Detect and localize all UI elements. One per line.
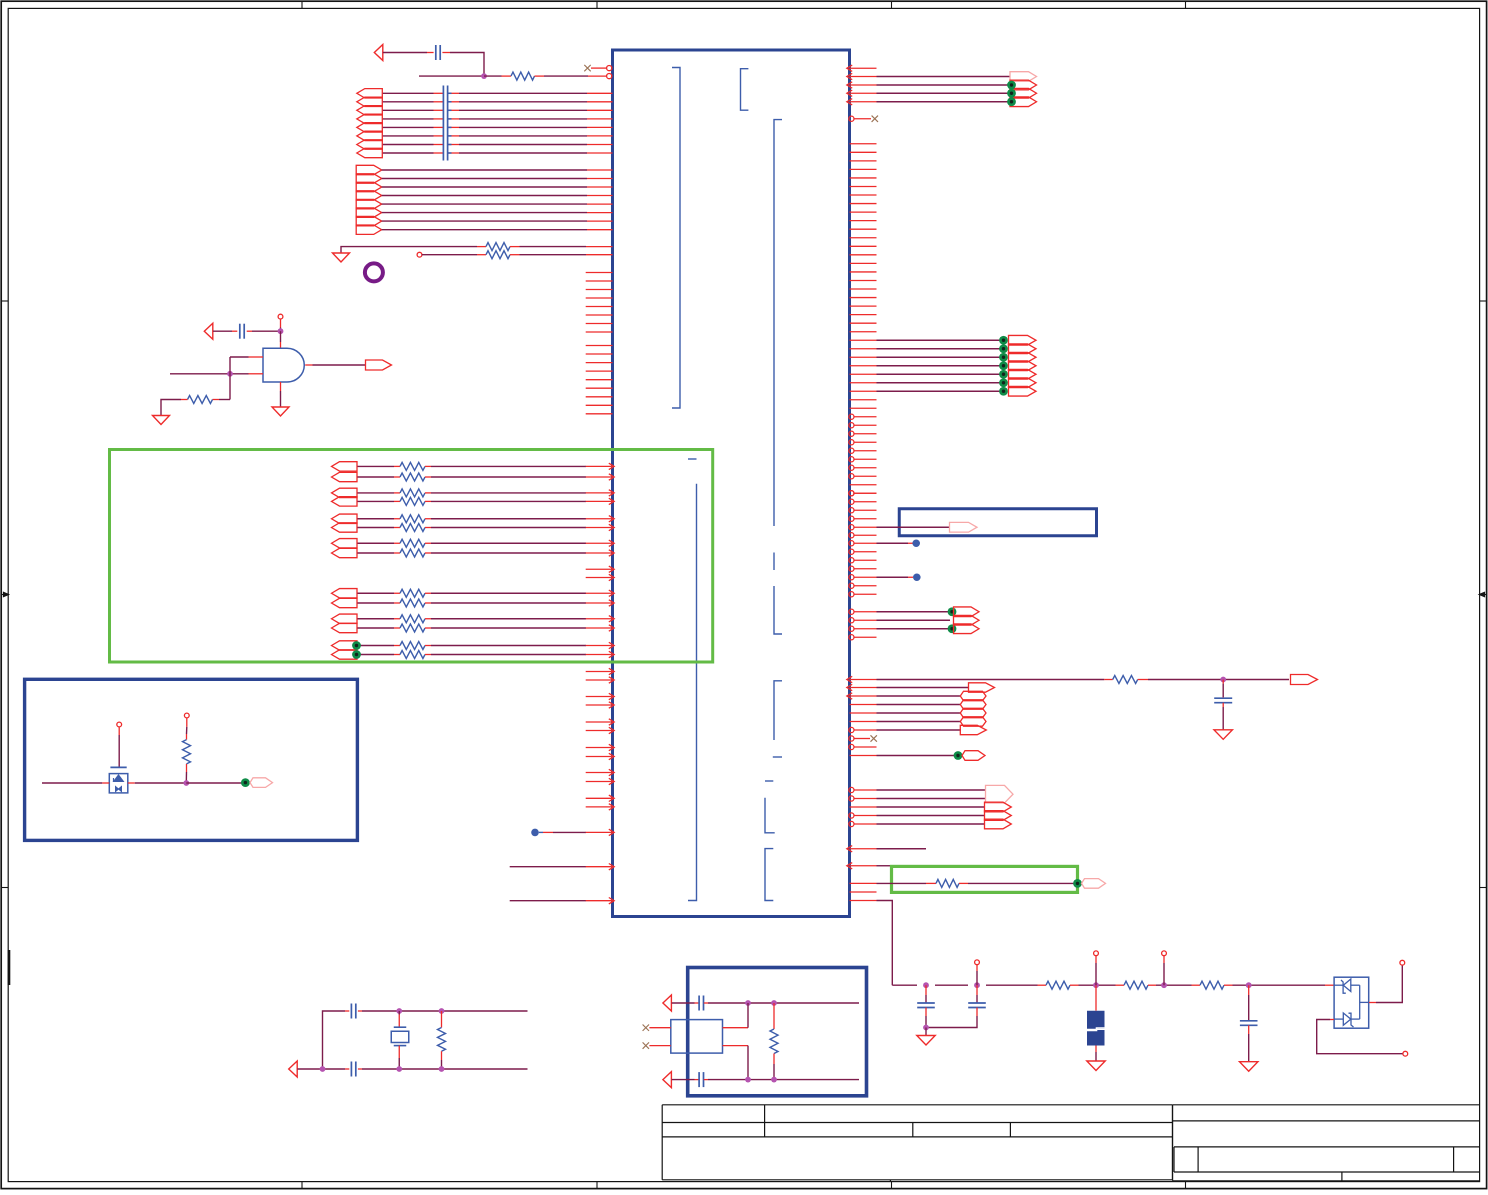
left edge center arrow (1, 592, 9, 597)
highlight blue box 1 (25, 679, 358, 840)
wire xtal top rail (323, 1011, 346, 1069)
resistor pair R15,R16 with wires (358, 615, 587, 632)
wire D1 bottom to circle (1317, 1020, 1408, 1057)
power arrow box3 bottom (663, 1072, 672, 1088)
junction node B (278, 328, 284, 334)
IC U1 internal bracket 4 (688, 459, 697, 901)
gate bottom pin to ground (280, 382, 282, 407)
IC right pin y535 (849, 533, 877, 538)
IC left pin group C (12 arrow pins) (586, 668, 615, 810)
IC right pin y747 (849, 744, 877, 749)
wire IC long run y679 (847, 676, 1105, 682)
wire gnd-line to resistor R2 (341, 247, 477, 253)
wire stub left at node (419, 75, 484, 77)
wire R20 to port (1148, 679, 1289, 681)
highlight blue box 2 (899, 509, 1096, 536)
wire to blue ball 2 (849, 575, 913, 580)
wire to bullet y755 (850, 755, 956, 757)
wire IC to port in box2 (849, 525, 949, 530)
capacitor C12 (926, 985, 986, 1027)
resistor R22 (1038, 981, 1079, 989)
IC right pins y585-594 (849, 583, 877, 597)
highlight green box 1 (110, 450, 713, 663)
capacitor C2 (232, 324, 252, 339)
wire node C vertical (229, 357, 231, 400)
wire D1 out to circle (1369, 960, 1405, 1002)
capacitor C1 (427, 45, 450, 60)
IC pins for pair 6 (586, 616, 615, 632)
gate input pin stubs (249, 357, 264, 374)
resistor pair R13,R14 with wires (358, 589, 587, 607)
IC left pin group A (8 pins) (586, 273, 613, 333)
wire arrow to C18 (672, 1079, 695, 1081)
connector port bank P1 (8 left arrows) (357, 89, 383, 158)
ground symbol G3 (272, 407, 289, 416)
resistor R4 (181, 396, 219, 404)
port stack 5 (985, 785, 1014, 828)
resistor R2 (477, 243, 520, 251)
green dot node D (241, 778, 250, 787)
junction x3 (320, 1066, 326, 1072)
resistor R1 (502, 72, 545, 80)
wires IC to top-right ports (847, 73, 1010, 105)
IC pins for pair 1 (586, 463, 615, 480)
output port arrow (366, 360, 392, 370)
IC right pin group B (circled) (849, 414, 877, 496)
ground symbol G1 (333, 253, 350, 262)
bus crossing double bar (connector J1) (443, 86, 447, 161)
IC U1 internal bracket 6 (765, 798, 775, 833)
wire bus bank P2 to IC (382, 170, 613, 230)
IC right pin y68 (847, 65, 877, 71)
small port stack (954, 607, 980, 634)
open terminal circle Q1 gate (117, 722, 122, 727)
port pair P5 (left arrows) (332, 514, 358, 532)
wire IC to R21 (850, 882, 927, 884)
junction node E (1220, 677, 1226, 683)
junction rail n3 (1093, 982, 1099, 988)
power arrow left of C2 (204, 323, 213, 339)
wire node C to resistor R4 (219, 399, 230, 401)
port pair P3 (left arrows) (332, 462, 358, 482)
capacitor C17 (695, 996, 709, 1011)
wire left input run (170, 373, 249, 375)
IC pin circle y76 (607, 74, 612, 79)
junction node C (227, 371, 233, 377)
wire R1 to IC pin (544, 75, 607, 77)
IC pins for pair 4 (586, 540, 615, 556)
capacitor C14 (1240, 985, 1258, 1061)
port pair P4 (left arrows) (332, 488, 358, 506)
IC U1 internal dash b (765, 780, 773, 782)
resistor R25 vertical (438, 1011, 446, 1069)
IC U1 internal bracket 5 (774, 681, 782, 740)
blue ball node 1 (912, 539, 920, 547)
power symbol left arrow (top-left) (374, 45, 383, 61)
IC U1 internal bracket 3 (dashed) (774, 120, 782, 634)
junction b1 (745, 1000, 751, 1006)
op IC U1 body (613, 50, 850, 917)
ground symbol G7 (1240, 1062, 1258, 1072)
port long run (1291, 675, 1318, 685)
IC U1 internal bracket 7 (765, 849, 773, 901)
open terminal circle R5 top (184, 713, 189, 718)
open terminal above n3 (1094, 951, 1099, 985)
wire upper gate input (230, 356, 249, 358)
junction b2 (771, 1000, 777, 1006)
port pair P6 (left arrows) (332, 539, 358, 558)
wire R21 to green dot (968, 882, 1074, 884)
IC U1 internal bracket 1 (672, 68, 680, 409)
mid-right port stack (1009, 335, 1037, 396)
capacitor C10 shunt (1214, 680, 1232, 730)
green dot y755 (954, 751, 963, 760)
top-right port stack (1010, 72, 1037, 107)
capacitor C11 (917, 985, 935, 1027)
resistor R5 vertical (183, 718, 191, 783)
right edge center arrow (1479, 592, 1487, 597)
IC right pins y399-408 (850, 400, 877, 409)
green dots at port pair 7 (352, 641, 361, 659)
wire C15 to right (362, 1010, 528, 1012)
junction x2 (439, 1008, 445, 1014)
resistor pair R7,R8 with wires (358, 489, 587, 506)
wire into IC y900 (510, 898, 615, 904)
highlight green box 2 (892, 866, 1078, 892)
wire R3 to IC (520, 254, 613, 256)
green dots top-right (1007, 81, 1016, 107)
IC right pin y892 (850, 891, 877, 893)
resistor R3 (477, 251, 520, 259)
bullet port y755 (962, 751, 985, 761)
port in box2 (950, 522, 978, 532)
capacitor C16 (345, 1062, 362, 1077)
wire to blue ball 1 (849, 541, 913, 546)
wire Q1 to node D (128, 782, 187, 784)
wire node D to port (186, 782, 243, 784)
IC pin circle y68 (607, 66, 612, 71)
resistor R20 (1104, 676, 1148, 684)
wire arrow to C17 (672, 1002, 695, 1004)
open terminal above n2 (975, 960, 980, 985)
junction rail n1 (923, 982, 929, 988)
wire stub y865 (847, 863, 891, 869)
wire node B to gate top (280, 331, 282, 348)
junction node D (183, 780, 189, 786)
open terminal circle above gate (278, 314, 283, 319)
wires IC to mid-right ports (850, 340, 1002, 391)
title block left (662, 1105, 1172, 1182)
wire circle to resistor R3 (422, 254, 477, 256)
wire stub y848 (847, 846, 926, 852)
title block right (1173, 1105, 1480, 1181)
IC pins for pair 2 (586, 490, 615, 505)
purple ring marker (365, 263, 383, 281)
resistor pair R17,R18 with wires (358, 642, 587, 659)
junction rail n4 (1161, 982, 1167, 988)
ground symbol G4 (1214, 730, 1232, 740)
IC pins for pair 3 (586, 516, 615, 531)
wire through Q1 left (42, 782, 109, 784)
junction rail n5 (1246, 982, 1252, 988)
IC U1 internal dash a (773, 756, 782, 758)
junction x5 (439, 1066, 445, 1072)
wire Y2 down (747, 1046, 749, 1080)
ground symbol G2 (153, 416, 170, 425)
bullet port gbox2 (1082, 879, 1106, 889)
resistor R26 vertical (770, 1003, 778, 1080)
wire C2 to node B (252, 330, 281, 332)
bullet port (box1) (250, 778, 273, 788)
junction x4 (396, 1066, 402, 1072)
IC right pins y551-568 (849, 549, 877, 571)
ground symbol G6 (1087, 1061, 1105, 1071)
wire C16 right (362, 1068, 528, 1070)
capacitor C15 (345, 1004, 362, 1019)
junction b3 (745, 1077, 751, 1083)
no-connect X pin (top-left) (584, 65, 606, 71)
green dots small ports (948, 607, 957, 633)
no-connect right y738 (849, 735, 877, 741)
resistor R24 (1192, 981, 1233, 989)
power arrow box3 top (663, 995, 672, 1011)
capacitor C18 (695, 1072, 709, 1087)
connector port bank P2 (8 right flags) (356, 165, 382, 234)
TVS diode pack D1 (1325, 977, 1369, 1028)
junction b4 (771, 1077, 777, 1083)
wire node F to ground (925, 1028, 927, 1036)
junction node A (481, 73, 487, 79)
IC right pin group A (23 pins) (850, 144, 877, 332)
wire R4 to ground (161, 400, 181, 416)
wire xtal bottom rail (297, 1068, 345, 1070)
port pair P9 (left arrows) (332, 641, 358, 659)
open terminal above n4 (1162, 951, 1167, 985)
resistor R23 (1116, 981, 1157, 989)
open terminal circle (417, 252, 422, 257)
wire R2 to IC (520, 246, 613, 248)
wire from arrow to capacitor C1 (383, 52, 427, 54)
wire Y2 up (747, 1003, 749, 1028)
junction node F (923, 1025, 929, 1031)
green dot gbox2 (1073, 879, 1082, 888)
resistor pair R9,R10 with wires (358, 515, 587, 532)
port pair P8 (left arrows) (332, 614, 358, 633)
wire into IC y866 (510, 864, 615, 870)
IC U1 internal bracket 2 (741, 69, 749, 111)
IC right pin group C (circled) (849, 491, 877, 522)
wire node A to resistor R1 (484, 75, 502, 77)
IC left pin group B (9 pins) (586, 346, 613, 414)
IC pins for pair 7 (586, 642, 615, 657)
no-connect pin right y118 (849, 116, 878, 122)
highlight blue box 3 (688, 968, 867, 1096)
wire C18 to rail (708, 1079, 859, 1081)
IC left no-wire arrow pins mid (586, 566, 615, 581)
crystal Y1 (391, 1011, 409, 1069)
resistor pair R5,R6 with wires (358, 462, 587, 481)
blue ball node wire y832 (531, 829, 614, 837)
wire circle to Q1 (118, 727, 120, 768)
wire C17 to rail (708, 1002, 859, 1004)
junction rail n2 (974, 982, 980, 988)
resistor R21 (926, 879, 968, 887)
polar capacitor C13 (filled) (1087, 985, 1105, 1061)
wire arrow to C2 (213, 330, 232, 332)
blue ball node 2 (913, 573, 921, 581)
wires IC to small port stack (849, 609, 950, 631)
port pair P7 (left arrows) (332, 589, 358, 608)
wire bus bank P1 to IC (383, 93, 613, 153)
port stack 6 (960, 683, 994, 735)
gate output wire (305, 364, 365, 366)
transistor Q1 (109, 767, 128, 792)
green dots mid-right (999, 336, 1008, 396)
wire IC to power rail (850, 901, 893, 986)
power rail wire (892, 984, 1325, 986)
power arrow xtal gnd (289, 1061, 298, 1077)
AND gate U2 (263, 348, 304, 382)
IC right pin y637 (849, 635, 877, 640)
junction x1 (396, 1008, 402, 1014)
wires IC to port stack 6 (847, 684, 968, 732)
ground symbol G5 (917, 1036, 935, 1046)
IC pins for pair 5 (586, 590, 615, 606)
wires IC to port stack 5 (849, 787, 985, 826)
resistor pair R11,R12 with wires (358, 539, 587, 557)
crystal Y2 box (643, 1020, 748, 1054)
wire circle to node B (280, 319, 282, 331)
wire C1 to corner node (450, 53, 484, 77)
